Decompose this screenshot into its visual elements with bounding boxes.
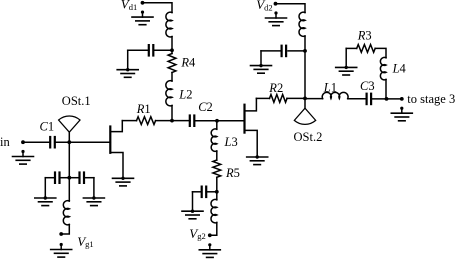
capacitor C1 <box>49 137 51 147</box>
stub lead OSt.2 <box>304 98 306 108</box>
wire node E to Cc <box>153 49 172 51</box>
ground marker at input <box>21 150 24 153</box>
node G (drain bias / stub junction) <box>303 97 307 101</box>
wire node H to node G <box>304 51 306 99</box>
wire Lg1 to Vg1 terminal <box>61 225 69 235</box>
svg-text:Vg1: Vg1 <box>77 234 93 249</box>
capacitor Ca (left shunt) <box>54 173 56 183</box>
wire choke to node E <box>171 37 173 51</box>
input port node 'in' <box>21 140 25 144</box>
node Vd1 <box>141 1 145 5</box>
wire riser Ca <box>44 178 46 198</box>
svg-text:OSt.2: OSt.2 <box>294 130 323 144</box>
wire R1 to node C <box>156 120 172 122</box>
open radial stub OSt.2 <box>294 108 315 124</box>
wire Cb to ground riser <box>84 177 94 179</box>
wire R4 to L2 <box>171 73 173 82</box>
svg-text:R2: R2 <box>268 81 283 95</box>
wire node B to Lg1 <box>68 178 70 201</box>
stub lead OSt.1 <box>68 132 70 142</box>
ground marker at Vd2 <box>274 11 277 14</box>
wire ground riser to R3 <box>346 47 357 49</box>
capacitor Cb (right shunt) <box>78 173 80 183</box>
transistor Q2 drain lead <box>245 98 257 111</box>
wire Cc to riser <box>128 49 149 51</box>
svg-text:Vd1: Vd1 <box>121 0 137 12</box>
terminal Vg1 node <box>59 232 63 236</box>
capacitor Ce (bias bypass) <box>281 46 283 56</box>
wire node B to Cb <box>69 177 79 179</box>
svg-text:C1: C1 <box>40 120 55 134</box>
wire choke to node H <box>304 36 306 51</box>
wire node B to Ca <box>59 177 69 179</box>
inductor Ld2 (drain choke) <box>299 12 305 36</box>
node B (shunt caps junction) <box>67 176 71 180</box>
wire Q2 drain to R2 <box>256 97 269 99</box>
wire L1 to C3 <box>348 98 367 100</box>
ground for Ca <box>35 197 56 199</box>
wire Vd2 to choke <box>276 4 306 13</box>
resistor R2 <box>270 95 288 103</box>
ground for Ce <box>251 65 272 67</box>
wire node G to L1 <box>305 98 323 100</box>
wire node D to gate of Q2 <box>217 120 245 122</box>
ground for Cd <box>182 210 203 212</box>
wire riser Cc <box>127 50 129 69</box>
open radial stub OSt.1 <box>59 116 80 132</box>
wire R3 to L4 <box>375 48 386 57</box>
transistor Q1 source lead <box>110 153 123 179</box>
wire R5 to node F <box>216 177 218 192</box>
resistor R3 <box>357 45 375 53</box>
node E (bypass junction) <box>170 48 174 52</box>
wire L2 to node C <box>171 106 173 121</box>
wire node F to Lg2 <box>216 192 218 200</box>
wire C2 to node D <box>194 120 217 122</box>
resistor R1 <box>137 117 156 125</box>
inductor L2 <box>166 81 172 106</box>
wire L4 to node I <box>385 80 387 99</box>
terminal Vg2 node <box>208 233 212 237</box>
node Vd2 <box>274 2 278 6</box>
ground marker at Vd1 <box>141 11 144 14</box>
ground at Q2 source <box>247 156 268 158</box>
svg-text:R3: R3 <box>357 28 372 42</box>
node F (Vg2 bypass junction) <box>215 190 219 194</box>
wire Cd to riser <box>193 191 202 193</box>
inductor Lg1 (gate bias choke) <box>63 201 69 225</box>
output terminal node <box>400 97 404 101</box>
wire node I to output terminal <box>387 98 402 100</box>
svg-text:R5: R5 <box>225 166 240 180</box>
wire Q1 drain to R1 <box>122 120 136 122</box>
wire L3 to R5 <box>216 151 218 160</box>
wire Vd1 to choke <box>143 3 173 13</box>
node I (L4 junction) <box>385 97 389 101</box>
node C (drain bias junction) <box>170 119 174 123</box>
svg-text:OSt.1: OSt.1 <box>62 94 91 108</box>
inductor Ld1 (drain choke) <box>166 12 172 37</box>
resistor R5 <box>213 160 221 177</box>
wire node F to Cd <box>206 191 217 193</box>
wire C1 to gate of Q1 <box>55 141 111 143</box>
ground at Q1 source <box>113 177 134 179</box>
wire node A down to node B <box>68 142 70 178</box>
wire node D to L3 <box>216 121 218 130</box>
wire riser Ce <box>260 51 262 66</box>
capacitor C2 <box>189 116 191 126</box>
inductor L3 <box>211 129 217 151</box>
ground for Cc <box>117 69 138 71</box>
ground for R3 <box>336 66 357 68</box>
wire node E to R4 <box>171 50 173 53</box>
svg-text:Vg2: Vg2 <box>189 226 205 241</box>
wire riser Cd <box>192 192 194 211</box>
ground marker at Vg2 <box>208 243 211 246</box>
inductor Lg2 (gate bias choke) <box>211 199 217 222</box>
inductor L4 <box>380 57 386 79</box>
wire input to C1 <box>23 141 50 143</box>
inductor L1 <box>322 92 348 98</box>
svg-text:L2: L2 <box>178 88 192 102</box>
wire Ca to ground riser <box>45 177 55 179</box>
svg-text:to stage 3: to stage 3 <box>407 92 455 106</box>
svg-text:L4: L4 <box>392 61 407 75</box>
ground marker at output <box>400 107 403 110</box>
svg-text:L3: L3 <box>224 135 238 149</box>
transistor Q2 source lead <box>245 130 258 157</box>
transistor Q2 channel bar <box>243 105 245 133</box>
svg-text:C3: C3 <box>360 79 375 93</box>
svg-text:L1: L1 <box>323 80 337 94</box>
wire node C to C2 <box>172 120 190 122</box>
wire R2 to node G <box>287 97 305 99</box>
svg-text:Vd2: Vd2 <box>256 0 272 12</box>
svg-text:C2: C2 <box>198 100 213 114</box>
ground marker at Vg1 <box>60 243 63 246</box>
wire node H to Ce <box>288 50 305 52</box>
transistor Q1 channel bar <box>109 127 111 153</box>
capacitor Cd (gate bypass) <box>201 187 203 197</box>
node A (C1/stub/bias junction) <box>67 140 71 144</box>
wire Lg2 to Vg2 terminal <box>210 223 217 236</box>
wire riser Cb <box>93 178 95 198</box>
capacitor C3 <box>366 94 368 104</box>
wire Ce to riser <box>261 50 282 52</box>
capacitor Cc (bias bypass) <box>148 45 150 55</box>
resistor R4 <box>168 54 176 73</box>
node D (L3 / gate junction) <box>215 119 219 123</box>
svg-text:R1: R1 <box>136 102 151 116</box>
transistor Q1 drain lead <box>110 121 122 132</box>
node H (bypass junction) <box>303 49 307 53</box>
ground for Cb <box>83 197 104 199</box>
svg-text:R4: R4 <box>180 56 196 70</box>
wire C3 to node I <box>371 98 387 100</box>
wire riser R3 to ground <box>345 48 347 67</box>
svg-text:in: in <box>0 135 10 149</box>
